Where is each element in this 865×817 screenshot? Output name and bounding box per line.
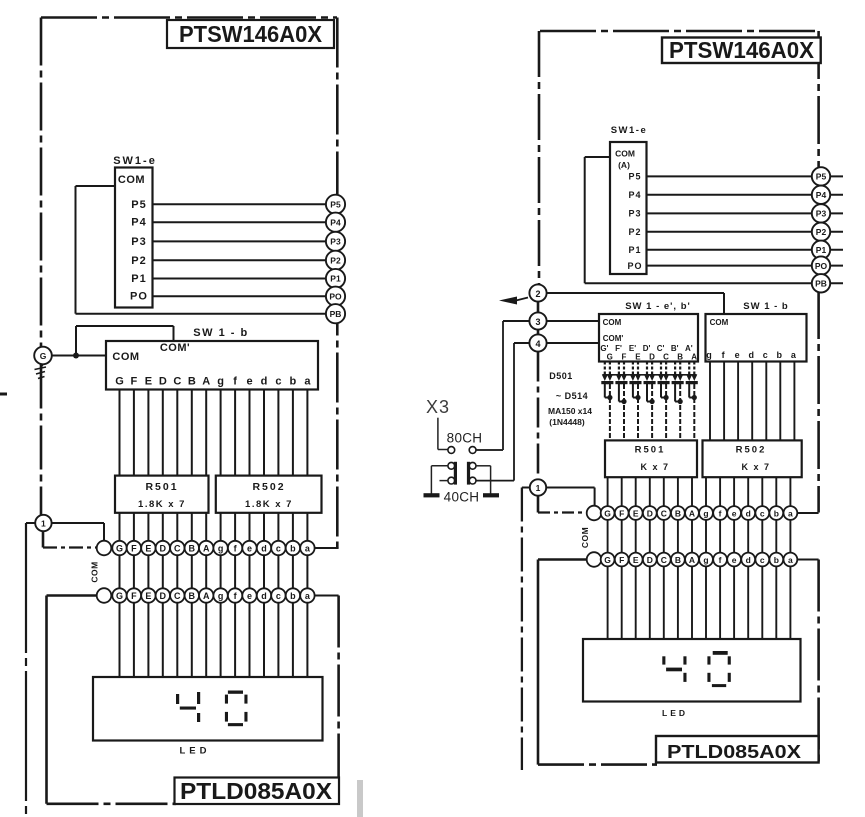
wire segment G between connector rows (left): [119, 555, 121, 588]
connector circle P3 (right): [812, 204, 830, 222]
wire segment G from SW1-b to resistor network (left): [119, 390, 121, 476]
connector row 1 COM blank circle (right): [587, 506, 602, 521]
wire COM of SW1-e to PB line (left): [76, 185, 116, 187]
connector row 2 circle e (left): [242, 588, 256, 602]
svg-text:COM: COM: [603, 318, 622, 327]
svg-text:PO: PO: [130, 291, 148, 303]
wire segment f from connector row 2 to LED (left): [234, 603, 236, 677]
svg-text:D501: D501: [549, 371, 573, 381]
svg-text:SW 1 - b: SW 1 - b: [743, 301, 788, 312]
connector row 1 circle e (right): [727, 506, 741, 520]
resistor network R501 (left): [115, 476, 209, 513]
wire segment B from resistor network to connector row 1 (right): [677, 477, 679, 506]
svg-text:PTSW146A0X: PTSW146A0X: [669, 37, 815, 63]
svg-text:c: c: [276, 544, 281, 554]
board outline PTLD085A0X left: left border: [47, 594, 97, 597]
resistor network R501 (right): [605, 440, 697, 477]
svg-text:C: C: [661, 508, 667, 518]
wire 40CH right link to ground: [476, 465, 491, 467]
wire segment e from SW1-b to R502 (right): [737, 362, 739, 441]
connector row 1 circle a (left): [300, 541, 314, 555]
svg-text:P3: P3: [628, 209, 641, 219]
connector row 2 circle d (right): [741, 553, 755, 567]
svg-text:P4: P4: [628, 190, 641, 200]
svg-text:P1: P1: [628, 245, 641, 255]
wire connector 3 to 80CH switch (right): [503, 320, 530, 322]
svg-text:K x 7: K x 7: [640, 462, 669, 472]
wire segment e from resistor network to connector row 1 (right): [733, 477, 735, 506]
svg-text:COM: COM: [615, 149, 635, 159]
connector row 2 circle D (right): [643, 553, 657, 567]
diode D506 on segment E (right): [637, 362, 639, 375]
wire segment g from resistor network to connector row 1 (left): [220, 513, 222, 541]
diode D509 on segment C' (right): [660, 362, 662, 375]
wire segment g from connector row 2 to LED (right): [705, 566, 707, 639]
connector circle G with ground (left): [34, 347, 52, 365]
wire row2 a to right border (left): [315, 595, 339, 597]
wire 80CH right terminal to connector 3: [476, 449, 503, 451]
diode D501 on segment G' (right): [604, 362, 606, 375]
wire connector 2 to SW1-b COM (right): [547, 292, 725, 294]
connector circle 2 (right): [529, 284, 546, 301]
svg-text:b: b: [774, 555, 779, 565]
wire segment B from connector row 2 to LED (right): [677, 566, 679, 639]
wire segment g from connector row 2 to LED (left): [220, 603, 222, 677]
connector row 2 circle c (left): [271, 588, 285, 602]
connector circle PO (right): [812, 256, 830, 274]
wire connector 1 left and down (right): [522, 487, 530, 489]
connector row 2 circle C (left): [170, 588, 184, 602]
svg-text:C: C: [661, 555, 667, 565]
connector row 1 circle g (left): [213, 541, 227, 555]
switch SW1-e body (right): [610, 142, 647, 274]
wire segment A between connector rows (right): [691, 520, 693, 553]
connector row 2 circle a (left): [300, 588, 314, 602]
connector row 1 circle G (left): [112, 541, 126, 555]
connector row 2 circle b (left): [286, 588, 300, 602]
connector circle P4 (right): [812, 186, 830, 204]
board outline PTSW146A0X right: left border: [538, 31, 541, 284]
svg-text:e: e: [246, 376, 252, 388]
connector row 1 circle E (left): [141, 541, 155, 555]
wire segment F from resistor network to connector row 1 (left): [133, 513, 135, 541]
wire segment g between connector rows (right): [705, 520, 707, 553]
svg-text:A: A: [202, 376, 210, 388]
svg-text:COM: COM: [580, 527, 590, 548]
wire segment E from SW1-b to resistor network (left): [147, 390, 149, 476]
board outline PTSW146A0X right: top border: [540, 30, 819, 33]
svg-text:LED: LED: [662, 708, 688, 718]
connector row 1 circle b (right): [769, 506, 783, 520]
wire segment d from resistor network to connector row 1 (right): [747, 477, 749, 506]
svg-text:COM: COM: [90, 561, 100, 582]
connector row 2 circle B (left): [185, 588, 199, 602]
connector row 1 circle B (left): [185, 541, 199, 555]
wire segment g from resistor network to connector row 1 (right): [705, 477, 707, 506]
svg-text:B: B: [188, 376, 196, 388]
svg-text:2: 2: [535, 289, 540, 299]
svg-text:P2: P2: [816, 227, 827, 237]
connector row 1 circle A (left): [199, 541, 213, 555]
wire pin PO of SW1-e to connector (right): [647, 265, 844, 267]
svg-text:G: G: [115, 376, 124, 388]
wire segment a between connector rows (right): [789, 520, 791, 553]
svg-text:D: D: [647, 555, 653, 565]
board outline PTSW146A0X left: bottom-left segment to connector row: [43, 546, 97, 548]
seven-segment digit 0 (left): [228, 691, 243, 694]
connector row 2 circle e (right): [727, 553, 741, 567]
wire segment g from SW1-b to R502 (right): [709, 362, 711, 441]
svg-text:P2: P2: [628, 227, 641, 237]
connector row 2 circle D (left): [156, 588, 170, 602]
svg-text:R502: R502: [736, 445, 767, 456]
wire segment A from SW1-b to resistor network (left): [205, 390, 207, 476]
svg-text:PTLD085A0X: PTLD085A0X: [180, 778, 333, 804]
wire segment A from connector row 2 to LED (left): [205, 603, 207, 677]
svg-text:F: F: [131, 591, 137, 601]
wire segment E from resistor network to connector row 1 (right): [635, 477, 637, 506]
connector row 1 circle a (right): [784, 506, 798, 520]
wire segment a between connector rows (left): [306, 555, 308, 588]
wire segment e from connector row 2 to LED (right): [733, 566, 735, 639]
svg-text:1.8K x 7: 1.8K x 7: [245, 499, 293, 510]
connector row 1 circle g (right): [699, 506, 713, 520]
connector circle 3 (right): [529, 312, 546, 329]
connector row 1 circle d (left): [257, 541, 271, 555]
connector circle PB (left): [326, 304, 345, 323]
wire segment b from resistor network to connector row 1 (left): [292, 513, 294, 541]
svg-text:d: d: [748, 350, 754, 360]
svg-text:PO: PO: [627, 261, 642, 271]
wire segment D from SW1-b to resistor network (left): [162, 390, 164, 476]
wire segment c from connector row 2 to LED (left): [277, 603, 279, 677]
wire segment a from connector row 2 to LED (right): [789, 566, 791, 639]
svg-text:A: A: [203, 544, 210, 554]
wire merge of G' into G (right): [605, 397, 610, 399]
svg-text:F: F: [131, 544, 137, 554]
diode D512 on segment B (right): [679, 362, 681, 375]
svg-text:d: d: [746, 555, 751, 565]
svg-text:g: g: [217, 376, 224, 388]
connector row 2 circle c (right): [755, 553, 769, 567]
wire segment C from connector row 2 to LED (right): [663, 566, 665, 639]
wire segment G between connector rows (right): [607, 520, 609, 553]
wire pin P5 of SW1-e to connector (right): [647, 175, 844, 177]
diode D508 on segment D (right): [651, 362, 653, 375]
connector circle 4 (right): [529, 334, 546, 351]
wire segment E between connector rows (left): [147, 555, 149, 588]
seven-segment digit 4 (left): [176, 694, 179, 704]
svg-text:F: F: [619, 508, 624, 518]
connector circle P4 (left): [326, 213, 345, 232]
svg-text:b: b: [290, 591, 296, 601]
wire segment b from resistor network to connector row 1 (right): [775, 477, 777, 506]
wire 40CH left link to ground: [431, 465, 448, 467]
svg-text:P4: P4: [816, 190, 827, 200]
svg-text:B: B: [675, 508, 681, 518]
wire segment e from resistor network to connector row 1 (left): [249, 513, 251, 541]
wire merge of F' into F (right): [619, 401, 624, 403]
svg-text:SW1-e: SW1-e: [113, 155, 157, 167]
connector row 2 circle G (right): [601, 553, 615, 567]
connector circle P3 (left): [326, 232, 345, 251]
svg-text:D: D: [160, 544, 167, 554]
wire pin P4 of SW1-e to connector (left): [153, 221, 346, 223]
svg-text:g: g: [218, 544, 224, 554]
board outline PTSW146A0X right: right border: [817, 31, 820, 513]
svg-text:a: a: [788, 555, 793, 565]
ground bar left: [424, 493, 440, 497]
svg-text:PB: PB: [330, 309, 342, 319]
wire row1 a to right border (right): [798, 512, 819, 514]
board outline PTSW146A0X left: left border: [40, 18, 43, 347]
wire segment f from connector row 2 to LED (right): [719, 566, 721, 639]
svg-text:E: E: [633, 508, 639, 518]
svg-text:C: C: [173, 376, 181, 388]
board outline PTLD085A0X right: bottom border: [538, 763, 657, 766]
svg-text:C: C: [174, 591, 181, 601]
wire COM-prime step from junction up to SW1-b top (left): [76, 325, 174, 327]
wire connector 4 to SW1-e-b COM-prime (right): [547, 342, 600, 344]
wire segment c from connector row 2 to LED (right): [761, 566, 763, 639]
LED display module (right): [583, 639, 801, 702]
wire segment d from connector row 2 to LED (right): [747, 566, 749, 639]
svg-text:G: G: [604, 508, 611, 518]
svg-text:LED: LED: [180, 746, 211, 757]
connector row 2 circle F (left): [127, 588, 141, 602]
wire segment e between connector rows (right): [733, 520, 735, 553]
wire segment d from resistor network to connector row 1 (left): [263, 513, 265, 541]
diode D507 on segment D' (right): [646, 362, 648, 375]
name plate tick left page margin: [0, 393, 7, 396]
wire segment b between connector rows (left): [292, 555, 294, 588]
svg-text:c: c: [276, 591, 281, 601]
connector circle PB (right): [812, 274, 830, 292]
wire segment F from connector row 2 to LED (right): [621, 566, 623, 639]
wire segment a from connector row 2 to LED (left): [306, 603, 308, 677]
connector row 1 COM blank circle (left): [97, 541, 112, 556]
svg-text:B: B: [675, 555, 681, 565]
connector row 1 circle f (left): [228, 541, 242, 555]
svg-text:1: 1: [41, 519, 46, 529]
svg-text:E: E: [635, 353, 641, 362]
wire segment G from resistor network to connector row 1 (left): [119, 513, 121, 541]
svg-text:G: G: [604, 555, 611, 565]
wire segment a from resistor network to connector row 1 (right): [789, 477, 791, 506]
stub 40CH lower-left terminal: [440, 480, 449, 482]
svg-text:G: G: [116, 544, 123, 554]
diode D511 on segment B' (right): [674, 362, 676, 375]
wire segment E from resistor network to connector row 1 (left): [147, 513, 149, 541]
connector row 2 circle d (left): [257, 588, 271, 602]
connector row 1 circle B (right): [671, 506, 685, 520]
svg-text:D: D: [649, 353, 655, 362]
svg-text:P2: P2: [330, 256, 341, 266]
svg-text:A: A: [689, 555, 695, 565]
svg-text:B: B: [189, 591, 196, 601]
svg-text:a: a: [304, 376, 311, 388]
wire segment g between connector rows (left): [220, 555, 222, 588]
connector circle P2 (right): [812, 223, 830, 241]
svg-text:R501: R501: [635, 445, 666, 456]
wire segment B between connector rows (right): [677, 520, 679, 553]
svg-text:P5: P5: [330, 200, 341, 210]
svg-text:D: D: [647, 508, 653, 518]
wire segment b from SW1-b to resistor network (left): [292, 390, 294, 476]
svg-text:P4: P4: [131, 217, 146, 229]
svg-text:PTSW146A0X: PTSW146A0X: [179, 21, 323, 47]
svg-text:e: e: [247, 591, 252, 601]
svg-text:P1: P1: [131, 273, 146, 285]
diode D503 on segment F' (right): [618, 362, 620, 375]
svg-text:P2: P2: [131, 255, 146, 267]
wire pin P2 of SW1-e to connector (left): [153, 259, 346, 261]
svg-text:(A): (A): [618, 160, 630, 170]
wire segment D from resistor network to connector row 1 (left): [162, 513, 164, 541]
svg-text:A: A: [691, 353, 697, 362]
svg-text:P5: P5: [131, 199, 146, 211]
wire connector 3 to SW1-e-b COM (right): [547, 320, 600, 322]
svg-text:1.8K x 7: 1.8K x 7: [138, 499, 186, 510]
wire connector 4 to 40CH switch (right): [514, 342, 530, 344]
svg-text:G: G: [116, 591, 123, 601]
svg-text:E: E: [145, 591, 151, 601]
svg-text:A: A: [689, 508, 695, 518]
wire merge of C' into C (right): [661, 397, 666, 399]
wire segment D between connector rows (right): [649, 520, 651, 553]
svg-text:B: B: [189, 544, 196, 554]
svg-text:C: C: [663, 353, 669, 362]
svg-text:f: f: [719, 555, 722, 565]
wire pin P2 of SW1-e to connector (right): [647, 231, 844, 233]
wire pin PO of SW1-e to connector (left): [153, 295, 346, 297]
wire pin P3 of SW1-e to connector (left): [153, 240, 346, 242]
svg-text:D: D: [159, 376, 167, 388]
connector row 1 circle c (right): [755, 506, 769, 520]
wire merge of D' into D (right): [647, 401, 652, 403]
svg-text:G: G: [40, 351, 47, 361]
svg-text:F: F: [619, 555, 624, 565]
svg-text:4: 4: [535, 339, 540, 349]
wire X3 to 80CH left terminal: [437, 418, 439, 450]
diode D510 on segment C (right): [665, 362, 667, 375]
connector row 1 circle d (right): [741, 506, 755, 520]
svg-text:b: b: [290, 544, 296, 554]
switch X3 40CH left link: [448, 462, 455, 469]
svg-text:COM': COM': [160, 342, 190, 354]
board outline PTLD085A0X right: right border: [817, 560, 820, 765]
connector row 2 circle f (right): [713, 553, 727, 567]
wire segment b from SW1-b to R502 (right): [779, 362, 781, 441]
connector row 2 circle C (right): [657, 553, 671, 567]
svg-text:SW1-e: SW1-e: [611, 125, 648, 136]
wire segment a from resistor network to connector row 1 (left): [306, 513, 308, 541]
svg-text:R501: R501: [145, 481, 178, 493]
connector row 2 circle E (right): [629, 553, 643, 567]
wire segment e from SW1-b to resistor network (left): [249, 390, 251, 476]
connector row 1 circle G (right): [601, 506, 615, 520]
svg-text:d: d: [746, 508, 751, 518]
svg-text:PO: PO: [815, 261, 828, 271]
wire segment f from resistor network to connector row 1 (right): [719, 477, 721, 506]
svg-text:SW 1 - b: SW 1 - b: [193, 327, 248, 339]
connector row 1 circle F (right): [615, 506, 629, 520]
connector circle P1 (right): [812, 241, 830, 259]
wire segment F between connector rows (left): [133, 555, 135, 588]
board outline PTSW146A0X left: top border: [41, 16, 337, 19]
svg-text:40CH: 40CH: [444, 490, 480, 505]
connector circle PO (left): [326, 287, 345, 306]
wire segment F between connector rows (right): [621, 520, 623, 553]
wire pin P1 of SW1-e to connector (right): [647, 249, 844, 251]
board outline PTLD085A0X right: left border: [538, 558, 587, 561]
wire segment D from connector row 2 to LED (right): [649, 566, 651, 639]
resistor network R502 (left): [216, 476, 322, 513]
connector row 2 COM blank circle (left): [97, 588, 112, 603]
wire segment d from SW1-b to resistor network (left): [263, 390, 265, 476]
svg-text:g: g: [218, 591, 224, 601]
wire segment b from connector row 2 to LED (right): [775, 566, 777, 639]
diode D514 on segment A (right): [693, 362, 695, 375]
svg-text:PO: PO: [329, 291, 342, 301]
wire segment E between connector rows (right): [635, 520, 637, 553]
connector row 1 circle e (left): [242, 541, 256, 555]
svg-text:b: b: [774, 508, 779, 518]
wire segment f from SW1-b to resistor network (left): [234, 390, 236, 476]
svg-text:P5: P5: [816, 172, 827, 182]
svg-text:F: F: [131, 376, 138, 388]
wire segment G from connector row 2 to LED (right): [607, 566, 609, 639]
resistor network R502 (right): [703, 440, 802, 477]
connector circle 1 (left): [35, 515, 51, 531]
wire segment A between connector rows (left): [205, 555, 207, 588]
wire pin P1 of SW1-e to connector (left): [153, 278, 346, 280]
svg-text:K x 7: K x 7: [741, 462, 770, 472]
connector circle 1 (right): [530, 479, 546, 495]
connector row 1 circle D (left): [156, 541, 170, 555]
svg-text:c: c: [760, 508, 765, 518]
connector circle P5 (right): [812, 167, 830, 185]
wire segment c between connector rows (right): [761, 520, 763, 553]
wire merge of E' into E (right): [633, 397, 638, 399]
connector row 2 circle A (left): [199, 588, 213, 602]
svg-text:E: E: [145, 376, 152, 388]
connector row 2 circle g (left): [213, 588, 227, 602]
diode anode bus bar visual (right): [603, 374, 697, 376]
connector circle P2 (left): [326, 251, 345, 270]
svg-text:c: c: [760, 555, 765, 565]
switch SW1-b body (left): [106, 341, 318, 390]
svg-text:PTLD085A0X: PTLD085A0X: [667, 741, 802, 762]
wire pin P3 of SW1-e to connector (right): [647, 212, 844, 214]
wire segment C from SW1-b to resistor network (left): [176, 390, 178, 476]
wire segment d from SW1-b to R502 (right): [751, 362, 753, 441]
wire segment D from connector row 2 to LED (left): [162, 603, 164, 677]
wire merge of B' into B (right): [675, 401, 680, 403]
wire merge of A' into A (right): [689, 397, 694, 399]
svg-text:e: e: [732, 508, 737, 518]
svg-text:f: f: [233, 376, 237, 388]
wire segment f between connector rows (left): [234, 555, 236, 588]
diode D504 on segment F (right): [623, 362, 625, 375]
svg-text:e: e: [735, 350, 740, 360]
svg-text:e: e: [247, 544, 252, 554]
wire segment A from connector row 2 to LED (right): [691, 566, 693, 639]
svg-text:a: a: [788, 508, 793, 518]
connector row 2 circle f (left): [228, 588, 242, 602]
svg-text:A: A: [203, 591, 210, 601]
board outline PTLD085A0X left: bottom border: [47, 802, 177, 805]
